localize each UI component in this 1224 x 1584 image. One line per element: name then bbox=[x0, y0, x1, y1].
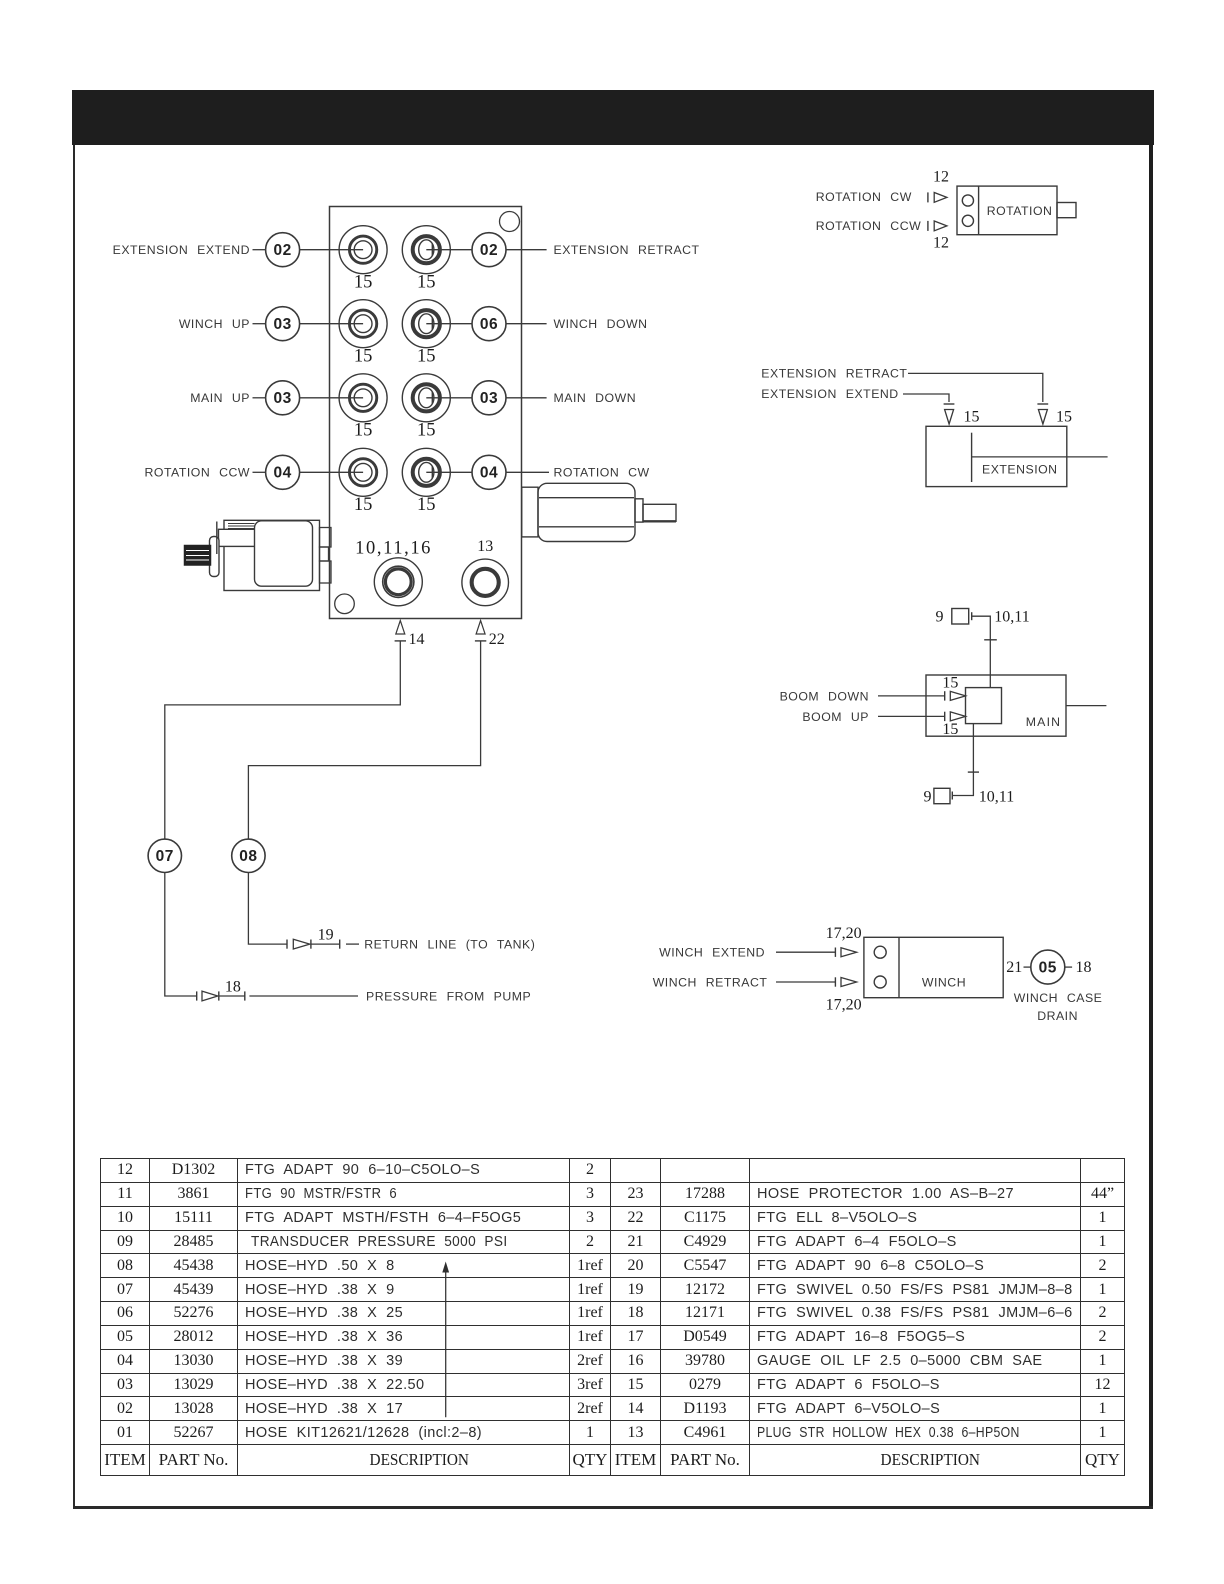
svg-text:04: 04 bbox=[273, 465, 291, 482]
svg-text:15: 15 bbox=[942, 721, 958, 738]
hose tick top bbox=[984, 639, 997, 641]
port arrow retract bbox=[1037, 404, 1048, 424]
label 10,11 bottom bbox=[979, 788, 1014, 805]
label 21 bbox=[1006, 959, 1022, 976]
callout 03 right bbox=[472, 381, 506, 415]
svg-text:EXTENSION RETRACT: EXTENSION RETRACT bbox=[554, 243, 700, 257]
wire callout 03R to label bbox=[506, 397, 547, 399]
svg-text:15: 15 bbox=[964, 409, 980, 426]
wire winch retract bbox=[776, 981, 835, 983]
callout 04 right bbox=[472, 455, 506, 489]
svg-text:14: 14 bbox=[409, 631, 425, 648]
port P10 plug port bbox=[462, 559, 509, 606]
label 15 under P5 bbox=[354, 421, 373, 441]
label ROTATION CW bbox=[554, 466, 650, 480]
label WINCH CASE bbox=[1014, 991, 1103, 1005]
label EXTENSION EXTEND bbox=[113, 243, 250, 257]
wire 21 to callout 05 bbox=[1024, 966, 1031, 968]
label DRAIN bbox=[1037, 1009, 1078, 1023]
svg-text:02: 02 bbox=[273, 242, 291, 259]
label 13 bbox=[477, 538, 493, 555]
label 22 bbox=[489, 631, 505, 648]
svg-text:21: 21 bbox=[1006, 959, 1022, 976]
wire label to callout 03L2 bbox=[253, 397, 266, 399]
label 15 retract bbox=[1056, 409, 1072, 426]
bolt hole bottom left bbox=[335, 594, 355, 614]
callout 04 left bbox=[266, 455, 300, 489]
arrow rotation cw inlet bbox=[928, 192, 947, 202]
valve block body bbox=[330, 207, 522, 619]
wire callout 03L to port bbox=[300, 323, 364, 325]
svg-text:15: 15 bbox=[942, 674, 958, 691]
label 10,11,16 bbox=[355, 539, 432, 559]
svg-text:RETURN LINE (TO TANK): RETURN LINE (TO TANK) bbox=[364, 938, 535, 952]
label WINCH RETRACT bbox=[653, 975, 768, 989]
check fitting 18 bbox=[197, 991, 245, 1001]
label 15 under P2 bbox=[417, 273, 436, 293]
svg-text:ROTATION CW: ROTATION CW bbox=[816, 190, 912, 204]
svg-text:15: 15 bbox=[417, 273, 436, 293]
label 10,11 top bbox=[994, 609, 1029, 626]
svg-text:ROTATION: ROTATION bbox=[987, 204, 1053, 218]
arrow winch retract bbox=[835, 977, 856, 986]
wire 22 to item 08 bbox=[248, 641, 480, 839]
flow arrow 14 bbox=[395, 621, 406, 641]
svg-text:15: 15 bbox=[354, 347, 373, 367]
port P8 rotation cw bbox=[402, 448, 450, 496]
wire 08 to return line bbox=[248, 873, 287, 945]
svg-text:05: 05 bbox=[1039, 959, 1057, 976]
callout 02 left bbox=[266, 233, 300, 267]
wire 07 to pressure line bbox=[165, 873, 197, 997]
label WINCH EXTEND bbox=[659, 946, 765, 960]
port P9 gauge port bbox=[374, 558, 422, 606]
svg-text:DRAIN: DRAIN bbox=[1037, 1009, 1078, 1023]
svg-text:22: 22 bbox=[489, 631, 505, 648]
svg-text:12: 12 bbox=[933, 234, 949, 251]
label EXTENSION EXTEND feed bbox=[761, 387, 898, 401]
wire callout 02L to port bbox=[300, 249, 364, 251]
svg-text:19: 19 bbox=[318, 927, 334, 944]
wire port P2 to callout 02R bbox=[426, 249, 472, 251]
svg-text:WINCH CASE: WINCH CASE bbox=[1014, 991, 1103, 1005]
callout 05 bbox=[1031, 950, 1065, 984]
svg-text:17,20: 17,20 bbox=[826, 997, 862, 1014]
svg-text:WINCH DOWN: WINCH DOWN bbox=[554, 317, 648, 331]
port P1 extension extend bbox=[339, 226, 387, 274]
label 17,20 top bbox=[826, 925, 862, 942]
svg-text:10,11: 10,11 bbox=[994, 609, 1029, 626]
label 15 under P8 bbox=[417, 495, 436, 515]
label 18 bbox=[225, 979, 241, 996]
svg-text:03: 03 bbox=[273, 390, 291, 407]
port P7 rotation ccw bbox=[339, 448, 387, 496]
arrow winch extend bbox=[835, 948, 856, 957]
wire label to callout 03L bbox=[253, 323, 266, 325]
main rod line bbox=[1066, 705, 1106, 707]
label EXTENSION RETRACT bbox=[554, 243, 700, 257]
svg-text:15: 15 bbox=[354, 273, 373, 293]
svg-text:EXTENSION: EXTENSION bbox=[982, 463, 1058, 477]
wire callout 04R to label bbox=[506, 471, 549, 473]
svg-text:BOOM UP: BOOM UP bbox=[802, 710, 869, 724]
svg-text:10,11: 10,11 bbox=[979, 788, 1014, 805]
svg-text:15: 15 bbox=[354, 495, 373, 515]
svg-text:BOOM DOWN: BOOM DOWN bbox=[780, 689, 869, 703]
fitting square top bbox=[952, 609, 972, 625]
svg-text:ROTATION CCW: ROTATION CCW bbox=[816, 219, 922, 233]
wire winch extend bbox=[776, 951, 835, 953]
label 15 under P1 bbox=[354, 273, 373, 293]
wire main valve to square bottom bbox=[952, 724, 973, 796]
svg-text:WINCH UP: WINCH UP bbox=[179, 317, 250, 331]
svg-text:9: 9 bbox=[936, 609, 944, 626]
port P4 winch down bbox=[402, 300, 450, 348]
winch motor box bbox=[864, 937, 1003, 997]
port P5 main up bbox=[339, 374, 387, 422]
svg-text:WINCH: WINCH bbox=[922, 975, 966, 989]
hose tick bottom bbox=[968, 771, 979, 773]
svg-text:EXTENSION RETRACT: EXTENSION RETRACT bbox=[761, 367, 907, 381]
label 14 bbox=[409, 631, 425, 648]
svg-text:WINCH RETRACT: WINCH RETRACT bbox=[653, 975, 768, 989]
wire port P8 to callout 04R bbox=[426, 471, 472, 473]
wire callout 03L2 to port bbox=[300, 397, 364, 399]
parts table bbox=[100, 1158, 1125, 1476]
wire boom up bbox=[878, 715, 945, 717]
wire label to callout 02L bbox=[253, 249, 266, 251]
svg-text:PRESSURE FROM PUMP: PRESSURE FROM PUMP bbox=[366, 989, 531, 1003]
label PRESSURE FROM PUMP bbox=[366, 989, 531, 1003]
svg-text:15: 15 bbox=[417, 347, 436, 367]
svg-text:ROTATION CCW: ROTATION CCW bbox=[145, 466, 251, 480]
label 15 under P4 bbox=[417, 347, 436, 367]
label BOOM DOWN bbox=[780, 689, 869, 703]
svg-text:08: 08 bbox=[239, 848, 257, 865]
svg-text:MAIN: MAIN bbox=[1026, 715, 1062, 729]
hose kit arrow in table bbox=[442, 1262, 449, 1418]
port arrow extend bbox=[944, 404, 955, 424]
label 17,20 bottom bbox=[826, 997, 862, 1014]
wire callout 02R to label bbox=[506, 249, 547, 251]
relief valve assembly left bbox=[185, 520, 332, 590]
callout 03 left row3 bbox=[266, 381, 300, 415]
svg-text:12: 12 bbox=[933, 169, 949, 186]
label ROTATION CCW inlet bbox=[816, 219, 922, 233]
extension cylinder box bbox=[926, 426, 1067, 486]
fitting square bottom bbox=[934, 788, 952, 803]
label 15 boom down bbox=[942, 674, 958, 691]
port P3 winch up bbox=[339, 300, 387, 348]
wire callout 05 to 18 bbox=[1065, 966, 1072, 968]
arrow rotation ccw inlet bbox=[928, 221, 947, 231]
port P2 extension retract bbox=[402, 226, 450, 274]
check fitting 19 bbox=[287, 939, 340, 949]
label 19 bbox=[318, 927, 334, 944]
page frame right border bbox=[1149, 145, 1153, 1508]
page frame left border bbox=[73, 145, 75, 1508]
label MAIN DOWN bbox=[554, 391, 637, 405]
svg-text:10,11,16: 10,11,16 bbox=[355, 539, 432, 559]
svg-text:MAIN DOWN: MAIN DOWN bbox=[554, 391, 637, 405]
svg-text:WINCH EXTEND: WINCH EXTEND bbox=[659, 946, 765, 960]
svg-text:15: 15 bbox=[417, 421, 436, 441]
label 15 boom up bbox=[942, 721, 958, 738]
label MAIN UP bbox=[190, 391, 250, 405]
svg-text:ROTATION CW: ROTATION CW bbox=[554, 466, 650, 480]
svg-text:03: 03 bbox=[480, 390, 498, 407]
hex fitting right bbox=[522, 483, 676, 541]
svg-text:15: 15 bbox=[354, 421, 373, 441]
wire 14 to item 07 bbox=[165, 641, 400, 839]
wire square to main valve bbox=[972, 616, 991, 687]
label WINCH DOWN bbox=[554, 317, 648, 331]
label 9 top bbox=[936, 609, 944, 626]
svg-text:04: 04 bbox=[480, 465, 498, 482]
callout 03 left bbox=[266, 307, 300, 341]
svg-text:15: 15 bbox=[1056, 409, 1072, 426]
svg-text:13: 13 bbox=[477, 538, 493, 555]
label WINCH UP bbox=[179, 317, 250, 331]
wire callout 06R to label bbox=[506, 323, 547, 325]
svg-text:06: 06 bbox=[480, 316, 498, 333]
bolt hole top right bbox=[500, 212, 520, 232]
svg-text:17,20: 17,20 bbox=[826, 925, 862, 942]
header bar bbox=[72, 90, 1154, 145]
page frame bottom border bbox=[73, 1506, 1153, 1509]
svg-text:MAIN UP: MAIN UP bbox=[190, 391, 250, 405]
label EXTENSION RETRACT feed bbox=[761, 367, 907, 381]
label 12 bottom bbox=[933, 234, 949, 251]
svg-text:9: 9 bbox=[924, 788, 932, 805]
callout 02 right bbox=[472, 233, 506, 267]
wire extension extend bbox=[903, 394, 949, 402]
wire callout 04L to port bbox=[300, 471, 364, 473]
svg-text:EXTENSION EXTEND: EXTENSION EXTEND bbox=[761, 387, 898, 401]
svg-text:03: 03 bbox=[273, 316, 291, 333]
label 12 top bbox=[933, 169, 949, 186]
svg-text:EXTENSION EXTEND: EXTENSION EXTEND bbox=[113, 243, 250, 257]
label BOOM UP bbox=[802, 710, 869, 724]
label 15 under P6 bbox=[417, 421, 436, 441]
label 15 under P7 bbox=[354, 495, 373, 515]
label 9 bottom bbox=[924, 788, 932, 805]
wire dash to return label bbox=[346, 943, 359, 945]
port P6 main down bbox=[402, 374, 450, 422]
svg-text:07: 07 bbox=[156, 848, 174, 865]
label ROTATION CW inlet bbox=[816, 190, 912, 204]
label RETURN LINE (TO TANK) bbox=[364, 938, 535, 952]
extension rod line bbox=[972, 456, 1108, 458]
svg-text:18: 18 bbox=[1076, 959, 1092, 976]
svg-text:18: 18 bbox=[225, 979, 241, 996]
rotation actuator box bbox=[957, 186, 1076, 235]
wire port P4 to callout 06R bbox=[426, 323, 472, 325]
label 15 extend bbox=[964, 409, 980, 426]
wire extension retract bbox=[908, 373, 1043, 402]
svg-text:02: 02 bbox=[480, 242, 498, 259]
arrow boom up bbox=[945, 712, 966, 721]
label ROTATION CCW bbox=[145, 466, 251, 480]
arrow boom down bbox=[945, 691, 966, 700]
wire to pressure label bbox=[249, 995, 358, 997]
callout 07 bbox=[148, 839, 181, 872]
svg-text:15: 15 bbox=[417, 495, 436, 515]
label 15 under P3 bbox=[354, 347, 373, 367]
flow arrow 22 bbox=[475, 621, 486, 641]
label 18 drain bbox=[1076, 959, 1092, 976]
callout 06 right bbox=[472, 307, 506, 341]
callout 08 bbox=[232, 839, 265, 872]
main valve box bbox=[926, 675, 1066, 736]
wire boom down bbox=[878, 695, 945, 697]
wire port P6 to callout 03R bbox=[426, 397, 472, 399]
wire label to callout 04L bbox=[253, 471, 266, 473]
